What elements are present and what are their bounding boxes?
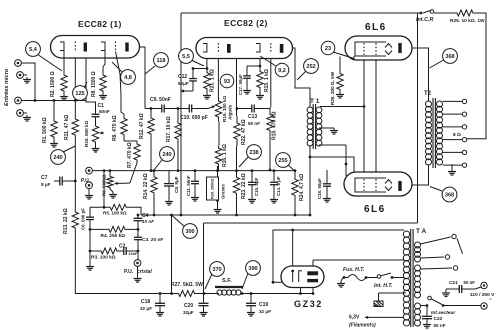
label Fus.H.T.	[343, 267, 365, 273]
svg-text:125: 125	[75, 91, 84, 97]
tube V1 grid 2	[375, 43, 377, 55]
svg-text:9,2: 9,2	[278, 68, 286, 74]
transformer T2 secondary	[437, 101, 443, 165]
resistor R19 pot aigues	[215, 97, 221, 121]
wire top HT/feedback line	[181, 12, 421, 14]
box R20 graves	[207, 177, 226, 200]
svg-text:8 Ω: 8 Ω	[453, 132, 461, 138]
label C7	[41, 175, 51, 187]
tube U1 plate A	[84, 43, 87, 52]
resistor R17	[175, 121, 181, 141]
label Int.C.R	[416, 17, 433, 23]
label C4	[142, 213, 154, 224]
wire box left edge	[180, 13, 183, 216]
resistor R20 link	[214, 166, 222, 213]
resistor R4	[89, 226, 138, 232]
label R25	[450, 18, 485, 24]
svg-text:R27. 5kΩ. 5W: R27. 5kΩ. 5W	[171, 282, 203, 288]
svg-text:118: 118	[156, 58, 165, 64]
tube GZ32 envelope V3	[281, 266, 324, 288]
svg-text:C2: C2	[119, 244, 126, 250]
label C13	[248, 114, 260, 126]
svg-text:T2: T2	[424, 91, 432, 97]
svg-text:C21: C21	[449, 280, 458, 286]
node 5,4	[26, 42, 62, 71]
tube U1 grid B	[115, 42, 117, 52]
svg-text:240: 240	[53, 155, 62, 161]
resistor R18	[267, 107, 273, 138]
transformer TA left winding	[403, 231, 409, 326]
resistor R15	[256, 66, 264, 99]
svg-text:R1. 500 kΩ: R1. 500 kΩ	[42, 117, 48, 143]
svg-text:R14. 22 kΩ: R14. 22 kΩ	[143, 173, 149, 199]
choke S.F.	[215, 287, 243, 295]
tube V2 cathode box	[355, 178, 386, 192]
svg-text:R21. 1 kΩ: R21. 1 kΩ	[210, 69, 216, 92]
tube V3 plate 2	[307, 279, 318, 282]
label R4	[101, 233, 126, 239]
label C6	[81, 208, 86, 230]
svg-text:238: 238	[249, 150, 258, 156]
svg-text:252: 252	[306, 64, 315, 70]
wire R16 bottom to bus	[218, 166, 220, 170]
svg-text:50μF: 50μF	[178, 81, 189, 86]
svg-text:(Filaments): (Filaments)	[349, 323, 376, 329]
node 4,8	[112, 62, 135, 84]
label R21	[210, 69, 216, 92]
resistor R12	[148, 114, 154, 138]
svg-text:C12: C12	[178, 74, 187, 80]
wire left rail lower	[75, 235, 160, 294]
wire R17 bottom to bus	[177, 141, 179, 171]
svg-text:C9. 50nF: C9. 50nF	[150, 97, 171, 103]
label R11	[64, 115, 70, 140]
label R22	[241, 119, 247, 145]
transformer T2 core	[433, 98, 435, 168]
resistor R21	[203, 67, 211, 99]
tube U2 grid A	[217, 43, 219, 53]
wire R18 bottom to bus	[269, 138, 272, 171]
svg-text:Graves: Graves	[221, 184, 226, 199]
label TA	[416, 228, 427, 235]
gnd bias terminal	[374, 301, 383, 307]
resistor R3	[89, 248, 120, 254]
resistor R16	[215, 146, 221, 166]
svg-text:ECC82 (2): ECC82 (2)	[224, 18, 268, 28]
svg-text:R26. 200 Ω. 5W: R26. 200 Ω. 5W	[330, 71, 335, 105]
svg-text:R13. 22 kΩ: R13. 22 kΩ	[63, 208, 69, 234]
wire feedback right side	[467, 13, 486, 139]
node coupling junctions	[150, 107, 180, 110]
label R12	[139, 113, 145, 139]
resistor R11	[72, 115, 78, 139]
label R7	[127, 142, 133, 168]
capacitor C2	[120, 247, 139, 255]
node 368 bottom	[430, 187, 457, 202]
resistor R24	[292, 171, 298, 215]
svg-text:Aiguës: Aiguës	[228, 104, 233, 121]
label R15	[264, 69, 270, 92]
label R13	[63, 208, 69, 234]
svg-text:~: ~	[489, 297, 492, 303]
svg-text:Int. H.T.: Int. H.T.	[374, 283, 393, 289]
gnd T2 secondary	[448, 164, 456, 175]
label Int.H.T.	[374, 283, 393, 289]
wire R19 bottom to R16	[218, 121, 220, 146]
tube U1 cathode A	[60, 42, 64, 51]
wire TA mains taps	[421, 237, 463, 269]
wire GZ32 riser 2	[291, 229, 294, 271]
label C14	[276, 176, 281, 196]
switch Int.H.T.	[377, 273, 393, 279]
capacitor C19	[246, 294, 256, 317]
gnd fuse	[337, 278, 345, 288]
svg-text:R2. 1500 Ω: R2. 1500 Ω	[50, 71, 56, 97]
svg-text:C22: C22	[434, 316, 443, 322]
wire x=203 drop from box	[203, 223, 205, 294]
node bottom bus junctions	[159, 292, 253, 295]
label C17	[238, 74, 243, 95]
tube U1 grid A	[74, 42, 76, 52]
svg-text:4,8: 4,8	[124, 75, 132, 81]
svg-text:368: 368	[445, 54, 454, 60]
svg-text:Entrées micro: Entrées micro	[4, 68, 10, 106]
svg-text:R23. 22 kΩ: R23. 22 kΩ	[241, 173, 247, 199]
node 368 top	[430, 49, 458, 68]
node 240 right	[154, 147, 174, 170]
transformer T1 sec tap gnd	[319, 128, 338, 134]
node 93	[220, 74, 234, 88]
svg-text:R8. 1500 Ω: R8. 1500 Ω	[91, 71, 97, 97]
wire bus R27 to SF	[197, 293, 219, 295]
svg-text:32 μF: 32 μF	[259, 309, 271, 314]
wire R22 column	[236, 109, 238, 171]
svg-text:5,4: 5,4	[29, 47, 38, 53]
resistor R13	[72, 205, 78, 235]
resistor R5	[90, 171, 141, 215]
label C19	[259, 302, 271, 314]
svg-text:R18. 470 kΩ: R18. 470 kΩ	[272, 112, 278, 140]
label R26	[330, 71, 335, 105]
capacitor C4	[134, 214, 143, 224]
wire T1 secondary top to grid	[320, 105, 365, 108]
tube 6L6 bottom envelope V2	[344, 172, 412, 196]
jack micro input 4	[17, 110, 31, 121]
wire jack1 to bus	[18, 63, 35, 101]
svg-text:T 1: T 1	[310, 98, 320, 105]
svg-text:C14. 8 μF: C14. 8 μF	[276, 176, 281, 196]
resistor R8	[99, 51, 107, 100]
capacitor C10	[183, 105, 198, 113]
transformer TA right winding	[415, 242, 421, 326]
svg-text:50 nF: 50 nF	[248, 121, 260, 126]
tube V2 grid 2	[375, 179, 377, 191]
capacitor C21	[442, 285, 475, 297]
node 9,2	[260, 56, 289, 77]
resistor R7	[115, 139, 141, 185]
wire coupling line y=108.5	[145, 108, 208, 110]
svg-text:R5. 100 kΩ: R5. 100 kΩ	[103, 211, 127, 216]
capacitor C3	[134, 224, 142, 260]
svg-text:C7: C7	[41, 175, 48, 181]
tube V2 beam plates	[385, 180, 392, 191]
label 8 ohm	[453, 132, 461, 138]
svg-text:GZ32: GZ32	[294, 299, 323, 309]
svg-text:C18: C18	[141, 299, 150, 305]
wire wiper arrow into R19	[208, 106, 215, 109]
resistor R6 pot	[107, 171, 117, 198]
svg-text:C16. 50μF: C16. 50μF	[317, 178, 322, 199]
svg-text:C15. 8μF: C15. 8μF	[254, 177, 259, 196]
svg-text:10nF: 10nF	[129, 252, 139, 256]
wire GZ32 cathode stub	[272, 281, 315, 295]
svg-text:8 μF: 8 μF	[41, 182, 51, 187]
tube ECC82(2) envelope U2	[196, 38, 293, 59]
svg-text:C20: C20	[184, 303, 193, 309]
wire 6L6 bottom plate to T2	[402, 165, 429, 185]
label R9	[112, 115, 118, 141]
label C18	[140, 299, 152, 311]
svg-text:T A: T A	[416, 228, 427, 235]
svg-text:50nF: 50nF	[99, 109, 110, 114]
wire T1 primary bottom down	[309, 146, 311, 215]
wire grid line ECC82(2) A	[217, 53, 219, 97]
svg-text:cristal: cristal	[137, 269, 152, 275]
svg-text:C3. 20 nF: C3. 20 nF	[142, 237, 163, 243]
jack micro input 3	[15, 97, 22, 104]
label R14	[143, 173, 149, 199]
label C10	[180, 115, 208, 121]
wire 6L6 top plate to T2	[402, 48, 429, 101]
wire interior bus y=170	[92, 170, 295, 172]
capacitor C20	[199, 294, 209, 317]
tube U1 cathode B	[101, 42, 105, 51]
wire left rail x=75	[74, 139, 76, 205]
resistor R22	[234, 116, 240, 146]
node 300	[172, 216, 197, 239]
svg-text:50 nF: 50 nF	[464, 280, 476, 285]
svg-text:C13: C13	[248, 114, 257, 120]
resistor R10 pot	[92, 122, 105, 152]
svg-text:C17. 50μF: C17. 50μF	[238, 74, 243, 95]
label R16	[222, 144, 228, 167]
svg-text:23: 23	[325, 46, 331, 52]
svg-text:370: 370	[212, 267, 221, 273]
svg-text:R9. 470 kΩ: R9. 470 kΩ	[112, 115, 118, 141]
gnd P.U. cristal	[134, 266, 142, 282]
wire GZ32 riser 1	[273, 230, 404, 282]
node 390	[242, 261, 260, 289]
tube U2 plate B	[280, 44, 284, 53]
svg-text:368: 368	[445, 193, 454, 199]
resistor R27	[176, 291, 197, 297]
svg-text:390: 390	[248, 266, 257, 272]
wire cathode B ECC82(2)	[247, 52, 261, 67]
label R6	[102, 174, 107, 196]
label C2	[119, 244, 138, 257]
capacitor C14	[270, 170, 278, 203]
transformer T1 primary	[307, 107, 313, 146]
arrow filament	[365, 316, 404, 319]
wire bus SF to C19	[240, 293, 313, 295]
label 110/250V	[470, 292, 495, 303]
label C12	[178, 74, 189, 86]
capacitor C13	[248, 105, 258, 113]
wire cathode A ECC82(2)	[206, 52, 208, 69]
wire box right edge	[417, 13, 419, 223]
svg-text:50 nF: 50 nF	[434, 323, 446, 328]
svg-text:R7. 470 kΩ: R7. 470 kΩ	[127, 142, 133, 168]
svg-text:255: 255	[278, 158, 287, 164]
wire cathode chain left column	[74, 101, 76, 116]
tube U1 plate B	[125, 43, 128, 52]
label C1	[98, 103, 110, 114]
tube V1 grid 1	[363, 43, 365, 55]
capacitor C9	[158, 105, 168, 113]
svg-text:R24. 4,7 kΩ: R24. 4,7 kΩ	[299, 174, 305, 201]
tube V3 filament	[291, 270, 302, 283]
svg-text:R15. 1 kΩ: R15. 1 kΩ	[264, 69, 270, 92]
tube V1 plate	[398, 43, 401, 53]
svg-text:300: 300	[185, 229, 194, 235]
label T2	[424, 91, 432, 97]
capacitor C1	[92, 109, 100, 122]
svg-text:32μF: 32μF	[183, 310, 194, 315]
resistor R9	[116, 52, 128, 140]
svg-text:R17. 10 kΩ: R17. 10 kΩ	[166, 116, 172, 142]
label R24	[299, 174, 305, 201]
tube U2 cathode B	[256, 44, 260, 53]
wire 6L6 screen line	[309, 156, 354, 178]
label 6L6 top	[365, 22, 387, 33]
node mic bus junctions	[34, 99, 77, 102]
node 23	[321, 41, 354, 58]
svg-text:R16. 1 kΩ: R16. 1 kΩ	[222, 144, 228, 167]
wire plate A ECC82(2) down	[231, 48, 237, 109]
capacitor C8	[164, 171, 174, 205]
capacitor C22	[422, 304, 432, 328]
terminal mains 1	[481, 282, 487, 288]
capacitor C11	[191, 170, 199, 201]
tube U2 grid B	[270, 43, 272, 53]
node 370	[205, 262, 224, 289]
tube 6L6 top envelope V1	[345, 36, 412, 60]
node 252	[297, 59, 318, 80]
fuse Fus.H.T.	[343, 275, 368, 281]
wire x=172 drop to HT bus	[170, 215, 173, 295]
label C22	[434, 316, 446, 328]
svg-text:Int.C.R: Int.C.R	[416, 17, 433, 23]
wire T2 taps	[443, 101, 463, 165]
svg-text:C19: C19	[259, 302, 268, 308]
label ECC82 (1)	[78, 19, 122, 29]
svg-text:C8. 8μF: C8. 8μF	[174, 176, 179, 193]
wire R17 column	[177, 109, 179, 122]
svg-text:R20. 250kΩ: R20. 250kΩ	[211, 178, 215, 199]
jack P.U.	[81, 167, 93, 199]
node bus215 junctions	[153, 214, 312, 217]
label T1	[310, 98, 320, 105]
svg-text:Fus. H.T.: Fus. H.T.	[343, 267, 365, 273]
label R1	[42, 117, 48, 143]
svg-text:5,5: 5,5	[182, 54, 190, 60]
label R19	[222, 96, 233, 122]
tube ECC82(1) envelope U1	[51, 36, 140, 59]
label P.U. cristal	[124, 269, 152, 275]
resistor R26	[336, 56, 354, 98]
label R23	[241, 173, 247, 199]
label R18	[272, 112, 278, 140]
svg-text:R3. 100 kΩ: R3. 100 kΩ	[91, 255, 116, 261]
tube V1 cathode box	[355, 42, 386, 56]
label C11	[186, 175, 191, 196]
label R10	[84, 121, 89, 147]
wire C13 line	[236, 107, 270, 110]
svg-text:6L6: 6L6	[365, 22, 387, 33]
wire 6L6 grid drops	[364, 55, 376, 179]
label Entrees micro	[4, 68, 10, 106]
switch Int.secteur	[421, 296, 482, 307]
label C9	[150, 97, 171, 103]
wire C21 to terminal	[475, 287, 481, 289]
svg-text:C6. 500 pF: C6. 500 pF	[81, 208, 86, 230]
resistor R14	[151, 171, 157, 215]
jack micro input 2	[17, 72, 31, 83]
jack P.U. cristal	[134, 260, 141, 267]
transformer T1 secondary	[316, 107, 322, 146]
capacitor C12	[182, 67, 207, 92]
wire main HT bus bottom	[160, 293, 176, 295]
label C8	[174, 176, 179, 193]
tube V3 plate 1	[307, 271, 318, 275]
label C16	[317, 178, 322, 199]
svg-text:10 nF: 10 nF	[142, 219, 154, 224]
svg-text:C10. 650 pF: C10. 650 pF	[180, 115, 208, 121]
label R17	[166, 116, 172, 142]
svg-text:R10. 500 kΩ: R10. 500 kΩ	[84, 121, 89, 147]
wire GZ32 plate wire 2	[313, 260, 404, 271]
node 118	[145, 53, 168, 74]
label 6L6 bottom	[364, 204, 386, 215]
switch Int.C.R	[420, 10, 452, 15]
label Int.secteur	[431, 310, 456, 316]
svg-text:R12. 47 kΩ: R12. 47 kΩ	[139, 113, 145, 139]
capacitor C17	[243, 66, 257, 94]
tube U2 plate A	[227, 44, 231, 53]
label R3	[91, 255, 116, 261]
svg-text:R19. 100 kΩ: R19. 100 kΩ	[222, 96, 227, 122]
svg-text:P.U.: P.U.	[124, 269, 134, 275]
wire box bottom edge	[204, 222, 418, 224]
tube U2 cathode A	[203, 44, 207, 53]
capacitor C7	[54, 177, 77, 186]
label C21	[449, 280, 475, 286]
svg-text:240: 240	[162, 152, 171, 158]
node 125	[73, 82, 88, 100]
svg-text:93: 93	[224, 79, 230, 85]
transformer T2 primary	[426, 101, 432, 165]
label R8	[91, 71, 97, 97]
tube V1 beam plates	[385, 44, 392, 55]
wire plate A ECC82(1) down	[86, 52, 96, 110]
tube V2 plate	[398, 181, 401, 191]
terminal TA tap circles	[445, 234, 457, 270]
svg-text:Int.secteur: Int.secteur	[431, 310, 456, 316]
label C15	[254, 177, 259, 196]
resistor R2	[60, 51, 68, 101]
label R2	[50, 71, 56, 97]
svg-text:R22. 47 kΩ: R22. 47 kΩ	[241, 119, 247, 145]
